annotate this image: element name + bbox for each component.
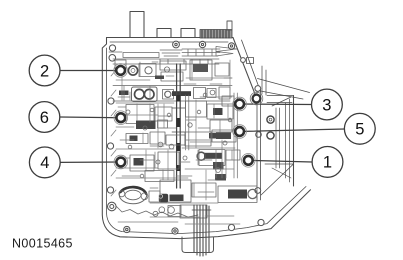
dark knob	[159, 194, 168, 203]
top right slope inner	[242, 40, 261, 92]
bolt hole top mid2	[199, 41, 205, 47]
interior detail: bottom zone	[116, 150, 257, 219]
interior detail: lower mid band	[126, 130, 236, 149]
right inner channel	[276, 108, 280, 168]
top edge outer	[107, 37, 234, 39]
svg-text:3: 3	[322, 96, 331, 114]
leader line 2	[60, 70, 121, 72]
bottom tab	[182, 237, 214, 253]
connector strip	[182, 49, 220, 56]
bolt hole right bottom	[255, 188, 261, 194]
wedge shapes	[216, 47, 237, 57]
bolt arm boss	[250, 92, 263, 105]
callout 3	[312, 89, 343, 120]
callout 1	[312, 147, 343, 178]
bolt hole top-left	[109, 45, 115, 51]
top tab small B	[181, 29, 195, 38]
ring right lower	[256, 132, 274, 139]
callout 4	[29, 147, 60, 178]
bolt hole right top	[255, 86, 261, 92]
left edge outer	[102, 38, 310, 239]
right face inner lines	[286, 99, 290, 182]
bolt hole left 4	[107, 187, 113, 193]
zigzag casting edge	[116, 206, 198, 217]
top right slope outer	[233, 38, 255, 95]
svg-text:N0015465: N0015465	[12, 237, 73, 251]
svg-text:6: 6	[40, 109, 49, 127]
bolt hole slope	[241, 58, 246, 63]
bolt target 3	[233, 97, 247, 111]
top tab	[130, 12, 144, 38]
interior detail: second band	[113, 86, 232, 102]
callout 6	[29, 102, 60, 133]
arm inner edges	[262, 66, 266, 95]
flange bolt holes	[107, 41, 264, 234]
bolt hole bottom 1	[124, 226, 130, 232]
bolt hole left 2	[108, 98, 114, 104]
bolt target 2	[114, 64, 128, 78]
oval pad	[119, 186, 146, 203]
fan web upper	[258, 79, 310, 93]
casting texture lines	[111, 60, 240, 224]
top peg	[227, 21, 232, 30]
leader line 3	[240, 103, 312, 106]
right face	[293, 96, 295, 187]
top edge inner	[110, 41, 228, 43]
svg-text:5: 5	[355, 121, 364, 139]
right diagonal strut lower	[272, 168, 291, 178]
bolt hole top mid	[173, 41, 180, 48]
scattered small circles	[126, 93, 232, 178]
right lower triangle	[261, 164, 294, 195]
bolt hole bottom 2	[172, 228, 178, 234]
leader line 1	[248, 160, 312, 162]
right flange verticals	[257, 90, 261, 200]
leader line 6	[60, 116, 121, 119]
right diagonal strut upper	[272, 97, 291, 106]
top hatched block	[200, 30, 232, 39]
leader line 4	[60, 161, 121, 163]
bolt hole bottom 4	[228, 224, 234, 230]
bolt hole top right	[228, 43, 234, 49]
svg-text:4: 4	[40, 154, 49, 172]
right section top	[267, 96, 294, 103]
inner casting edge top	[109, 50, 182, 58]
ring right upper	[267, 116, 274, 123]
top strip details under flange	[109, 47, 237, 58]
bolt target 5	[233, 125, 247, 139]
bolt hole upper-left inner	[109, 55, 116, 62]
bolt hole bottom-left small	[108, 202, 117, 211]
harness wires	[192, 205, 211, 256]
bolt target 4	[114, 155, 128, 169]
arm cap	[247, 58, 254, 64]
interior detail: top band	[113, 59, 229, 81]
svg-text:2: 2	[40, 62, 49, 80]
bolt target 1	[242, 154, 256, 168]
cylinder bank	[218, 186, 257, 203]
callout 2	[29, 55, 60, 86]
leader line 5	[240, 129, 345, 132]
valve body outline	[102, 12, 310, 239]
extra casting lines	[118, 62, 232, 197]
left edge inner flange	[107, 48, 307, 234]
bolt target 6	[114, 111, 128, 125]
bolt hole left 3	[107, 143, 113, 149]
callout 5	[344, 113, 375, 144]
svg-text:1: 1	[323, 154, 332, 172]
fan web lower	[261, 91, 304, 99]
top tab small A	[157, 29, 171, 38]
interior spine	[172, 64, 185, 188]
interior detail: mid band	[126, 93, 237, 178]
bolt hole bottom 5	[258, 219, 264, 225]
